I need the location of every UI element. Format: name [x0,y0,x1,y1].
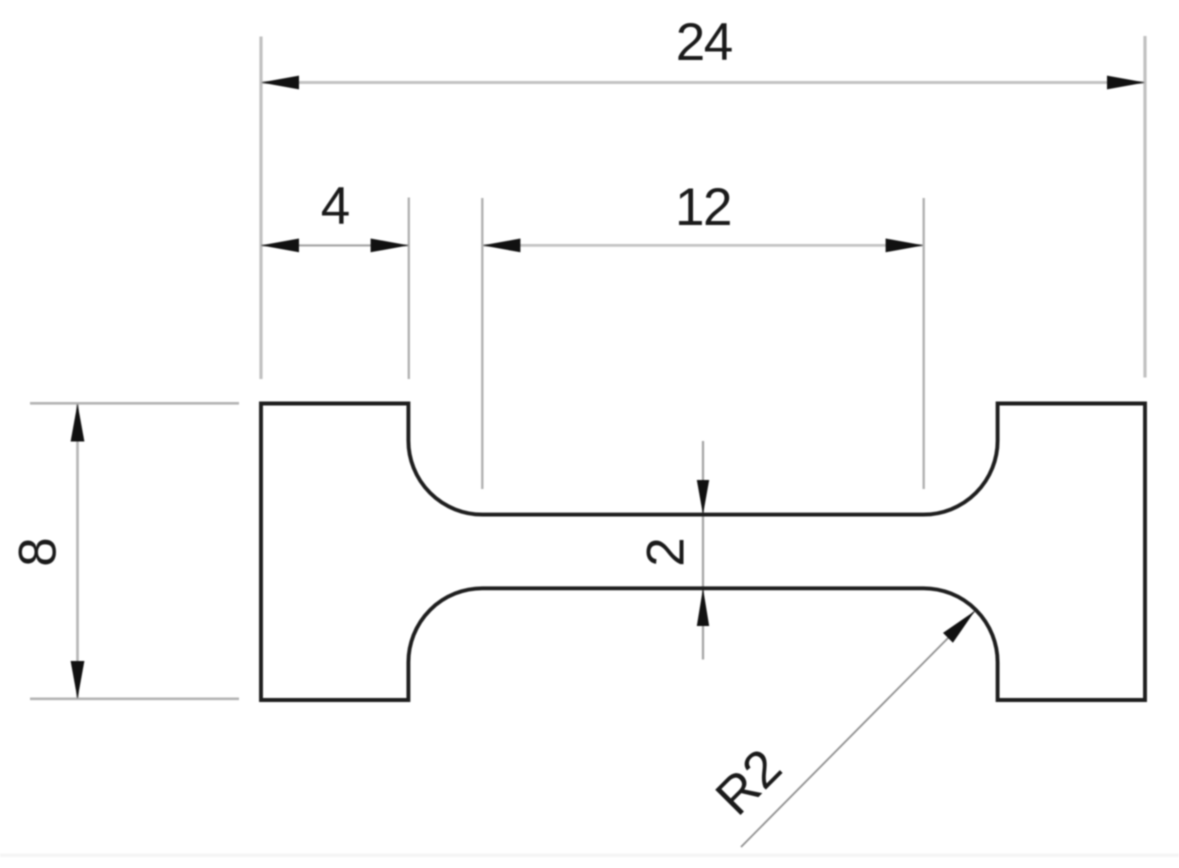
dim 24: dimension line [261,81,1145,84]
svg-text:24: 24 [676,13,732,72]
dim 12: left extension line [481,198,483,489]
dim R2: arrowhead [943,611,975,643]
dim 24: right arrowhead [1107,76,1145,90]
dim 2: upper arrowhead [697,480,709,515]
dim 24: left arrowhead [261,76,299,90]
specimen outline [261,404,1145,701]
dim 4: left arrowhead [261,239,299,253]
svg-text:8: 8 [9,537,68,566]
dim 4: right arrowhead [371,239,409,253]
dim 8: top extension line [30,402,239,405]
svg-text:4: 4 [321,177,350,236]
dim 2: lower arrowhead [697,588,709,626]
svg-text:12: 12 [675,178,731,237]
dim R2: leader line [741,611,975,847]
dim 24: left extension line [259,37,262,380]
sheet edge line (bottom faint) [0,854,1179,858]
dim 12: left arrowhead [482,239,520,253]
svg-text:2: 2 [637,537,696,566]
dim 8: top arrowhead [71,404,85,442]
dim 12: right extension line [923,198,925,489]
dim 8: bottom arrowhead [71,661,85,699]
dim 4: right extension line [408,198,410,380]
dim 8: bottom extension line [30,697,239,700]
dim 4: dimension line [261,244,409,246]
dim 24: right extension line [1143,36,1146,378]
dim 12: dimension line [482,244,923,247]
dim 2: dimension line [702,441,704,660]
dim 12: right arrowhead [886,239,924,253]
dim 8: dimension line [76,404,79,700]
